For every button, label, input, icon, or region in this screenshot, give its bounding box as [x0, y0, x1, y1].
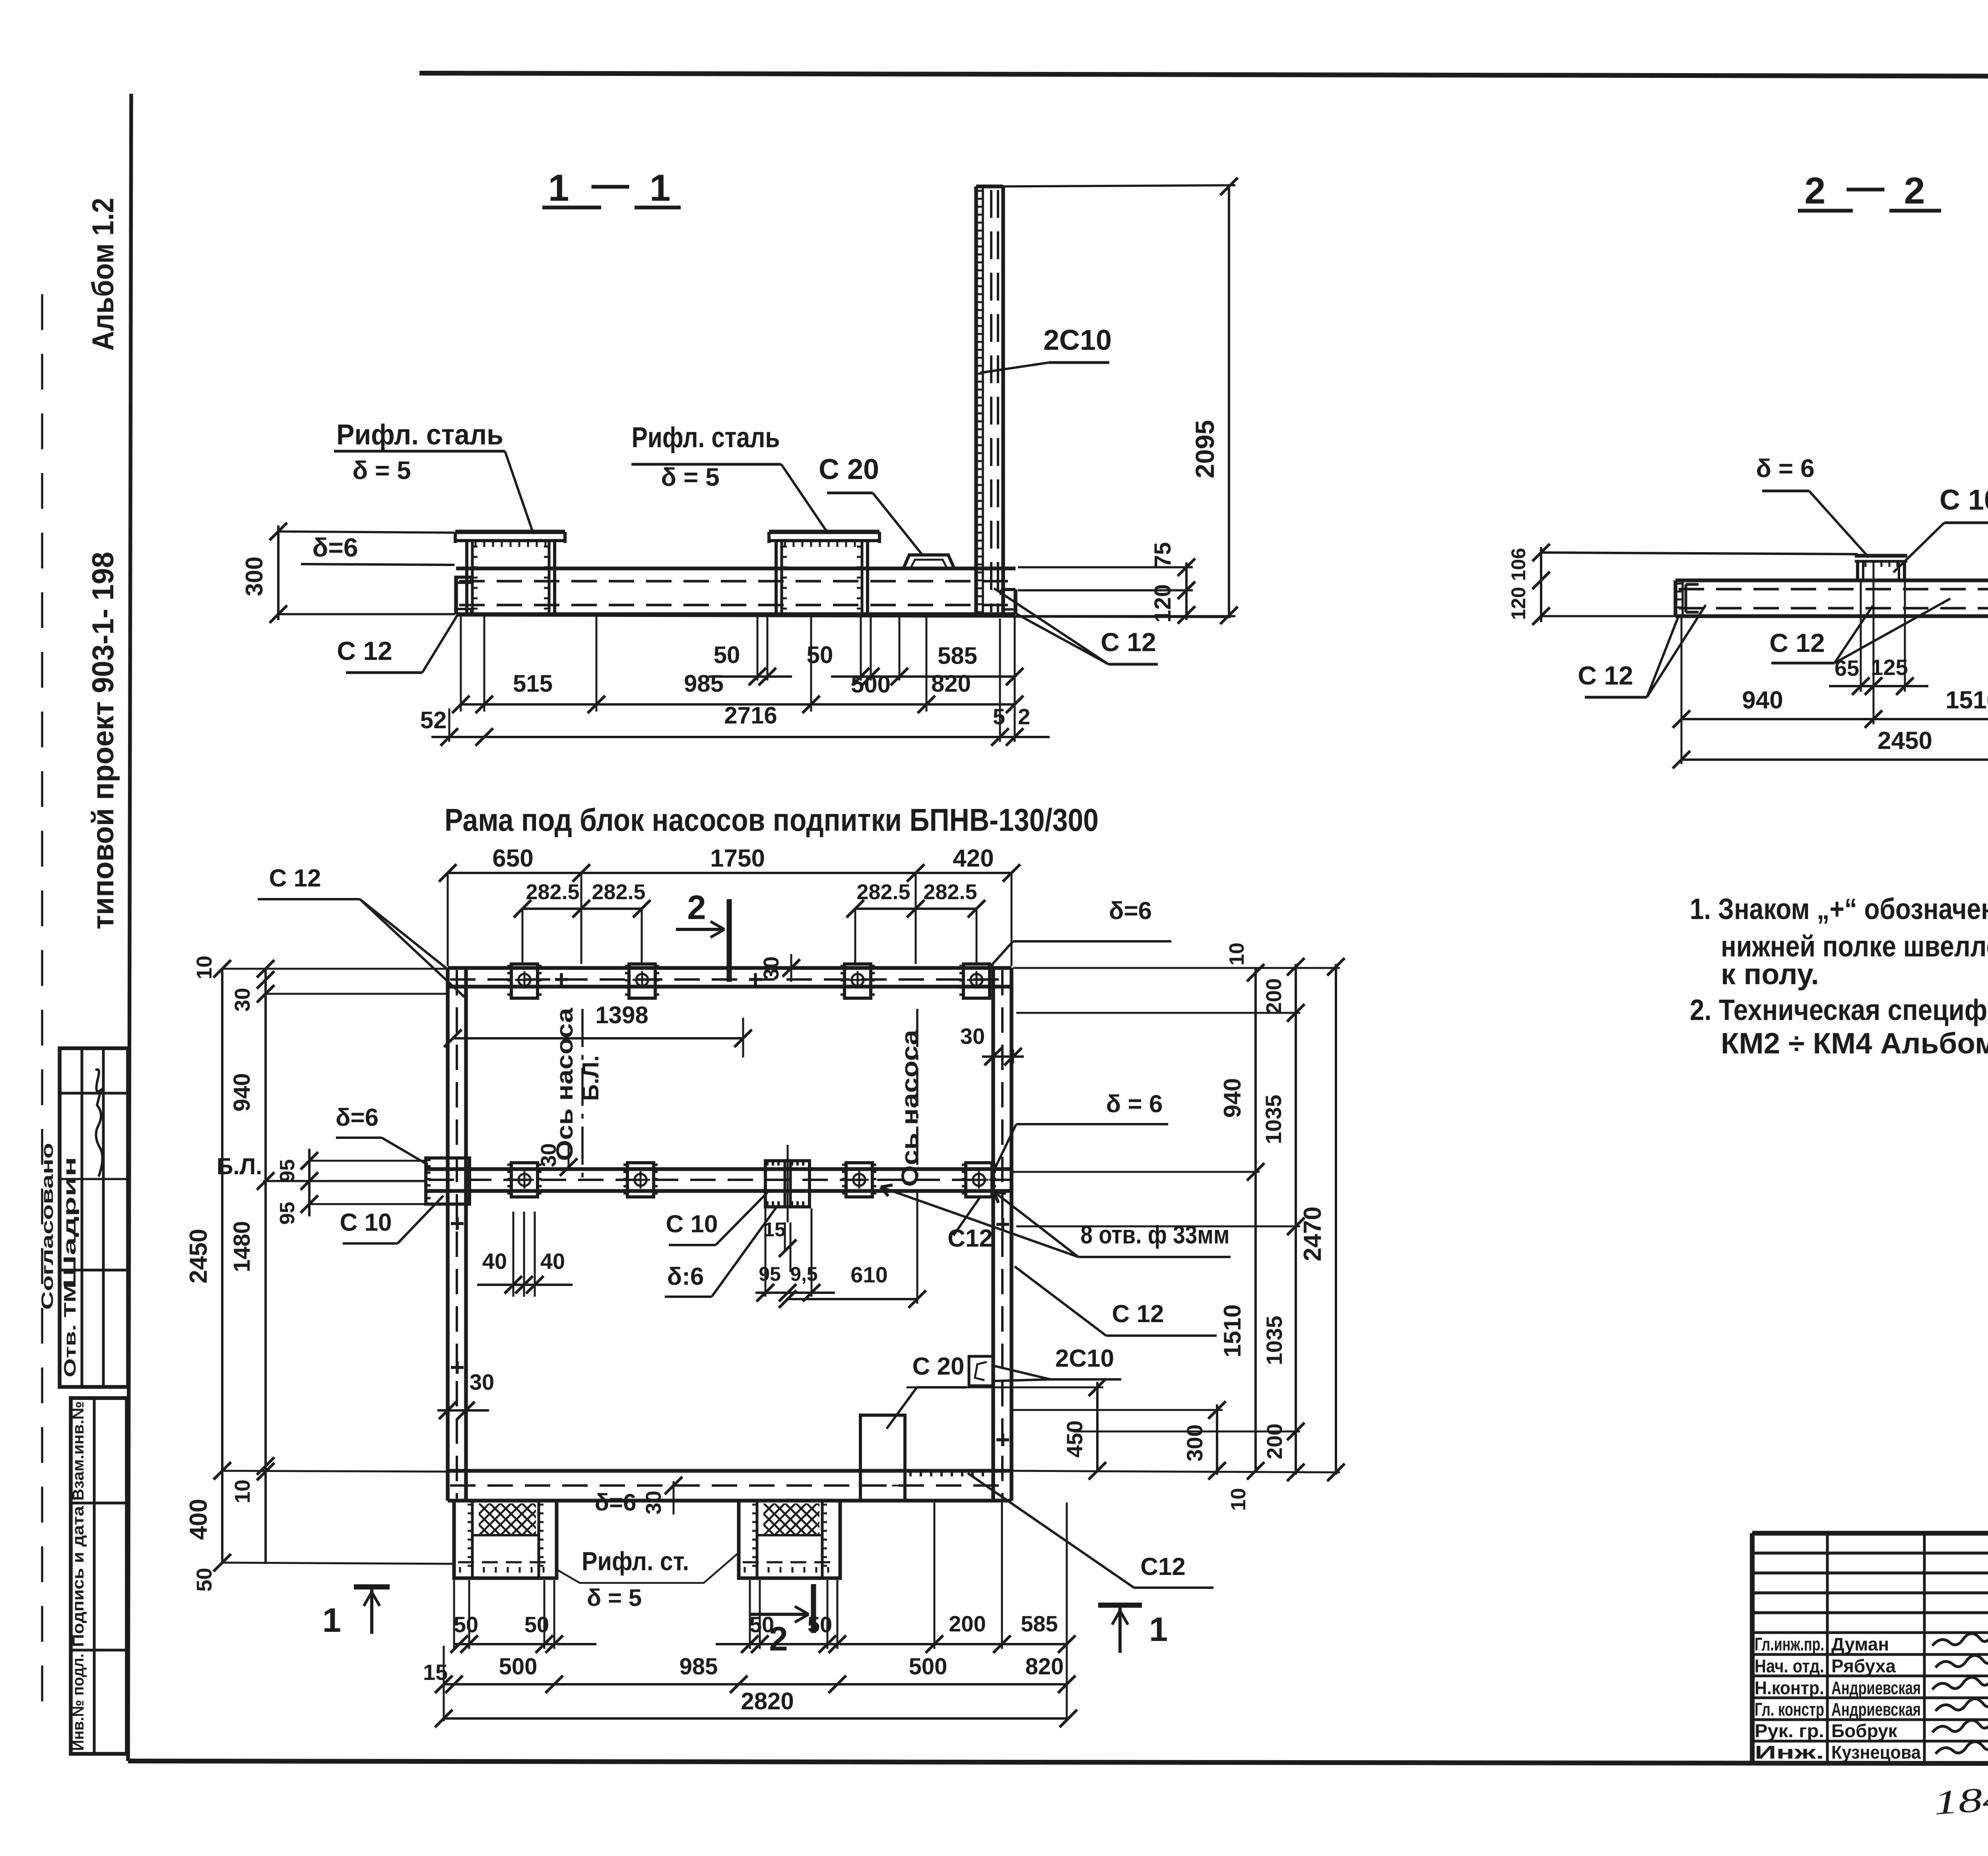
- svg-text:200: 200: [949, 1611, 986, 1636]
- handwritten 18454-40: [1932, 1771, 1988, 1822]
- svg-text:1: 1: [548, 167, 569, 209]
- section 1-1 floor line: [456, 615, 1231, 617]
- label C12 right 1-1: [994, 588, 1158, 664]
- plan right channel: [993, 968, 1011, 1501]
- svg-text:—: —: [592, 163, 629, 205]
- extension lines bottom dims 1-1: [449, 615, 1015, 742]
- plan right dim col C: [1299, 958, 1345, 1481]
- plan pump axis right: [916, 1009, 918, 1184]
- section 1-1 floor line left segment: [301, 564, 454, 565]
- notes line 2: [1721, 930, 1988, 963]
- svg-text:1035: 1035: [1261, 1095, 1286, 1144]
- plan dim chain 15-500-985-500-820: [423, 1503, 1076, 1721]
- plan label Rifl st bottom: [558, 1546, 739, 1611]
- dim 65-125 2-2: [1829, 561, 1928, 724]
- plan label d6 midright: [993, 1090, 1168, 1173]
- svg-text:1510: 1510: [1219, 1304, 1246, 1357]
- notes line 5: [1721, 1027, 1988, 1060]
- svg-text:С 20: С 20: [912, 1353, 965, 1380]
- svg-text:50: 50: [454, 1612, 478, 1637]
- svg-text:С 10: С 10: [1939, 484, 1988, 516]
- svg-text:2: 2: [1904, 170, 1925, 212]
- svg-text:типовой проект 903-1- 198: типовой проект 903-1- 198: [86, 552, 120, 929]
- plan dim 30 midleft: [537, 1143, 577, 1176]
- left stamp text Soglasovano: [38, 1143, 56, 1310]
- label C12 2-2 leftmost: [1578, 605, 1706, 697]
- svg-text:Рифл. ст.: Рифл. ст.: [582, 1546, 689, 1576]
- label Rifl stal mid: [631, 422, 827, 532]
- left stamp text Vzam.inv.No: [70, 1401, 87, 1501]
- svg-text:Кузнецова: Кузнецова: [1831, 1742, 1921, 1763]
- dim 75 section 1-1: [1018, 542, 1195, 599]
- svg-text:940: 940: [229, 1073, 255, 1112]
- plan label C10 mid: [666, 1193, 767, 1245]
- left stamp signature: [95, 1069, 103, 1177]
- svg-text:КМ2 ÷ КМ4 Альбом 5,4 .: КМ2 ÷ КМ4 Альбом 5,4 .: [1721, 1027, 1988, 1060]
- plan left channel: [448, 968, 466, 1501]
- plan mounting plates on top channel: [507, 964, 994, 998]
- svg-text:2: 2: [1805, 170, 1826, 212]
- svg-text:δ=6: δ=6: [336, 1104, 379, 1131]
- svg-text:95: 95: [276, 1159, 299, 1182]
- svg-text:С 12: С 12: [1578, 661, 1633, 690]
- svg-text:10: 10: [1225, 943, 1248, 966]
- label d6 section 1-1: [312, 533, 358, 562]
- page left border: [128, 94, 131, 1761]
- dim 120 2-2: [1507, 572, 1675, 625]
- left stamp text Shadrin: [60, 1157, 80, 1288]
- left stamp upper table: [60, 1048, 128, 1387]
- svg-text:500: 500: [851, 671, 891, 698]
- svg-text:Ось насоса: Ось насоса: [897, 1030, 923, 1187]
- plan axis label BL: [578, 1055, 604, 1101]
- svg-text:δ=6: δ=6: [595, 1489, 637, 1516]
- svg-text:50: 50: [714, 642, 740, 668]
- notes line 4: [1690, 993, 1988, 1026]
- section mark 2 top: [676, 889, 729, 982]
- svg-text:С12: С12: [1140, 1553, 1186, 1581]
- svg-text:15: 15: [763, 1218, 786, 1241]
- left stamp lower table: [71, 1398, 127, 1754]
- notes line 1: [1690, 892, 1988, 925]
- svg-text:75: 75: [1150, 542, 1176, 568]
- svg-text:5: 5: [993, 704, 1005, 729]
- svg-text:Рябуха: Рябуха: [1831, 1656, 1896, 1676]
- svg-text:2: 2: [1018, 704, 1030, 729]
- plan 2C10 bracket: [969, 1356, 993, 1386]
- plan mounting plates on mid channel: [507, 1163, 996, 1197]
- svg-text:515: 515: [513, 670, 553, 697]
- plan dim 15: [763, 1218, 796, 1272]
- plan label d6 topright: [991, 897, 1171, 966]
- plan dim 40-40: [477, 1212, 573, 1297]
- svg-text:Б.Л.: Б.Л.: [578, 1055, 604, 1101]
- plan dim 95-95 mid: [755, 1208, 835, 1301]
- svg-text:1035: 1035: [1262, 1316, 1287, 1365]
- svg-text:Андриевская: Андриевская: [1831, 1678, 1921, 1698]
- plan label d6 mid: [665, 1208, 776, 1297]
- svg-text:125: 125: [1871, 655, 1908, 680]
- svg-text:Инв.№ подл.: Инв.№ подл.: [70, 1654, 87, 1751]
- svg-text:8 отв. ф 33мм: 8 отв. ф 33мм: [1081, 1220, 1230, 1249]
- svg-text:Рук. гр.: Рук. гр.: [1755, 1720, 1824, 1741]
- section mark 1 left: [322, 1587, 390, 1639]
- left stamp text Inv.No podl.: [70, 1654, 87, 1751]
- label C20: [819, 454, 922, 555]
- svg-text:1: 1: [650, 167, 671, 209]
- svg-text:95: 95: [759, 1263, 781, 1285]
- svg-text:40: 40: [540, 1249, 565, 1274]
- svg-text:Рама под блок насосов подп: Рама под блок насосов подпитки БПНВ-130/…: [445, 802, 1099, 838]
- plan dim 282.5 left pair: [514, 880, 650, 964]
- paper left edge dashed: [41, 294, 43, 1701]
- plan left dim 2450-400: [185, 960, 454, 1571]
- plan dim 450: [907, 1379, 1106, 1480]
- left stamp text Otv.TM: [60, 1282, 79, 1377]
- plan dim chain 50s-200-585: [450, 1611, 1076, 1653]
- svg-text:Шадрин: Шадрин: [60, 1157, 80, 1288]
- svg-text:С 10: С 10: [340, 1209, 392, 1236]
- svg-text:1398: 1398: [595, 1002, 648, 1028]
- title block names: [1755, 1634, 1921, 1763]
- svg-text:Согласовано: Согласовано: [38, 1143, 56, 1310]
- svg-text:Н.контр.: Н.контр.: [1755, 1678, 1824, 1698]
- svg-text:30: 30: [470, 1369, 494, 1394]
- svg-text:50: 50: [749, 1612, 774, 1637]
- plan dim 610: [779, 1193, 926, 1308]
- svg-text:Рифл. сталь: Рифл. сталь: [336, 419, 503, 451]
- page bottom border: [128, 1761, 1988, 1764]
- label d6 2-2 left: [1756, 454, 1869, 557]
- beam C12 section 1-1: [456, 568, 1015, 614]
- svg-text:1510: 1510: [1945, 687, 1988, 714]
- left stamp text Podpis i data: [70, 1506, 87, 1647]
- plan dim 1398: [444, 1002, 752, 1057]
- svg-text:610: 610: [850, 1262, 887, 1287]
- svg-text:106: 106: [1507, 548, 1530, 581]
- label C12 left 1-1: [337, 615, 457, 673]
- C12 left cap 2-2: [1675, 580, 1699, 616]
- title block signatures: [1932, 1633, 1988, 1754]
- title block grid: [1752, 1533, 1988, 1763]
- pedestal 2 section 1-1: [769, 532, 879, 613]
- svg-text:10: 10: [231, 1480, 254, 1503]
- svg-text:Взам.инв.№: Взам.инв.№: [70, 1401, 87, 1501]
- plan left pad BL: [426, 1158, 470, 1204]
- page top border: [419, 73, 1988, 77]
- svg-text:30: 30: [960, 1024, 985, 1049]
- plan dim 30 bottommid: [642, 1477, 682, 1515]
- left margin text Album 1.2: [86, 198, 120, 351]
- svg-text:10: 10: [1227, 1488, 1250, 1511]
- svg-text:65: 65: [1835, 656, 1859, 681]
- svg-text:30: 30: [642, 1491, 666, 1515]
- svg-text:282.5: 282.5: [526, 880, 579, 904]
- plan dim 650-1750-420: [439, 845, 1020, 966]
- svg-text:2450: 2450: [185, 1229, 212, 1284]
- svg-text:δ = 5: δ = 5: [587, 1584, 642, 1611]
- svg-text:2716: 2716: [724, 702, 777, 729]
- C12 right end cap 1-1: [1001, 590, 1015, 614]
- plan right ext lines: [1013, 968, 1340, 1472]
- svg-text:δ = 5: δ = 5: [661, 463, 719, 491]
- plan right dim col B: [1261, 958, 1305, 1481]
- plan dim chain 2820: [435, 1688, 1077, 1727]
- svg-text:95: 95: [276, 1202, 299, 1225]
- plan plus hole marks: [451, 973, 1009, 1446]
- label C10 2-2: [1893, 484, 1988, 572]
- dim chain 50-50-585 1-1: [709, 642, 1023, 685]
- svg-text:к полу.: к полу.: [1721, 958, 1819, 991]
- svg-text:δ = 6: δ = 6: [1756, 454, 1814, 483]
- svg-text:1480: 1480: [229, 1221, 255, 1272]
- svg-text:940: 940: [1742, 687, 1783, 714]
- plan label d6 left: [336, 1104, 428, 1165]
- plan label 8otv: [881, 1185, 1231, 1257]
- notes line 3: [1721, 958, 1819, 991]
- svg-text:Подпись и дата: Подпись и дата: [70, 1506, 87, 1647]
- pedestal 1 section 1-1 (rifl steel box): [455, 532, 565, 613]
- section 2-2 title: [1798, 166, 1941, 212]
- svg-text:Отв. ТМ: Отв. ТМ: [60, 1282, 79, 1377]
- svg-text:2: 2: [687, 889, 706, 927]
- plan axis label left: [552, 1008, 578, 1161]
- svg-text:1: 1: [322, 1602, 341, 1639]
- plan label C20: [887, 1353, 966, 1429]
- svg-text:282.5: 282.5: [923, 880, 977, 904]
- svg-text:Ось насоса: Ось насоса: [552, 1008, 578, 1161]
- svg-text:Гл. констр: Гл. констр: [1755, 1699, 1824, 1720]
- channel C10 on beam 2-2: [1855, 556, 1907, 580]
- svg-text:50: 50: [808, 1612, 832, 1637]
- svg-text:30: 30: [759, 956, 783, 980]
- svg-text:δ = 6: δ = 6: [1106, 1090, 1163, 1118]
- svg-text:50: 50: [524, 1612, 549, 1637]
- plan bottom channel: [448, 1471, 1011, 1501]
- svg-text:30: 30: [231, 988, 254, 1012]
- svg-text:Бобрук: Бобрук: [1831, 1720, 1898, 1741]
- svg-text:820: 820: [931, 670, 971, 697]
- C12 left end cap 1-1: [456, 576, 472, 614]
- svg-text:Гл.инж.пр.: Гл.инж.пр.: [1755, 1634, 1824, 1654]
- dim 300 section 1-1: [241, 523, 455, 623]
- plan bottom ext lines chain1: [454, 1503, 1002, 1649]
- line floor level 2-2: [1541, 553, 1858, 554]
- plan right dim col A: [1219, 943, 1264, 1511]
- svg-text:2820: 2820: [741, 1688, 794, 1714]
- svg-text:120: 120: [1150, 584, 1176, 623]
- plan dim 282.5 right pair: [846, 880, 985, 964]
- plan left dim 10-30-940-1480-10: [192, 956, 448, 1592]
- plan label 2C10: [994, 1345, 1121, 1381]
- svg-text:δ=6: δ=6: [1109, 897, 1152, 925]
- plan label d6 bottom: [595, 1489, 637, 1516]
- plan label C12 topleft: [258, 865, 464, 997]
- plan dim 30 topmid: [759, 954, 800, 982]
- plan dim 300 right: [1013, 1401, 1226, 1480]
- svg-text:985: 985: [679, 1654, 718, 1680]
- svg-text:2С10: 2С10: [1055, 1345, 1114, 1372]
- left margin text project 903-1-198: [86, 552, 120, 929]
- plan dim 30 topright: [960, 989, 1024, 1065]
- svg-text:2095: 2095: [1190, 420, 1219, 479]
- svg-text:С 20: С 20: [819, 454, 879, 485]
- plan pump axis left: [581, 1009, 584, 1184]
- svg-text:С 12: С 12: [337, 636, 392, 665]
- dim chain 515-985-500-820 1-1: [452, 670, 1023, 713]
- svg-text:С 12: С 12: [1769, 628, 1825, 657]
- dim 940-1510 2-2: [1673, 617, 1988, 764]
- dim 106 2-2: [1507, 544, 1550, 589]
- section mark 1 right: [1098, 1605, 1168, 1653]
- plan label C12 right: [1015, 1266, 1217, 1336]
- plan pad 2 rifl steel: [732, 1501, 881, 1578]
- svg-text:1. Знаком „+“ обозначены отве: 1. Знаком „+“ обозначены отверстия ф 17 …: [1690, 892, 1988, 925]
- label Rifl stal left: [334, 419, 533, 532]
- svg-text:940: 940: [1219, 1078, 1246, 1118]
- beam C12 section 2-2: [1675, 580, 1988, 616]
- svg-text:С12: С12: [947, 1225, 993, 1252]
- plan mid channel: [426, 1169, 1011, 1191]
- svg-text:С 12: С 12: [1101, 627, 1156, 657]
- svg-text:40: 40: [482, 1249, 507, 1274]
- C20 bracket section 1-1: [903, 555, 954, 568]
- svg-text:Думан: Думан: [1831, 1634, 1889, 1654]
- column 2C10 section 1-1: [976, 186, 1003, 615]
- svg-text:Инж.: Инж.: [1755, 1742, 1824, 1763]
- svg-text:985: 985: [684, 670, 724, 697]
- svg-text:650: 650: [492, 845, 533, 872]
- svg-text:282.5: 282.5: [856, 880, 910, 904]
- svg-text:400: 400: [185, 1499, 212, 1540]
- svg-text:30: 30: [537, 1143, 561, 1167]
- svg-text:52: 52: [420, 707, 447, 733]
- dim 2450-400 2-2: [1673, 617, 1988, 768]
- plan dim 95-95: [276, 1149, 426, 1225]
- svg-text:Альбом 1.2: Альбом 1.2: [86, 198, 120, 351]
- svg-text:200: 200: [1263, 1424, 1287, 1459]
- svg-text:Андриевская: Андриевская: [1831, 1699, 1921, 1720]
- plan pad 1 rifl steel: [447, 1501, 597, 1578]
- svg-text:10: 10: [192, 956, 216, 979]
- svg-text:С 12: С 12: [1112, 1300, 1164, 1328]
- svg-text:Б.Л.: Б.Л.: [217, 1154, 262, 1179]
- dim 2095 section 1-1: [1003, 178, 1238, 624]
- svg-text:1750: 1750: [710, 845, 765, 872]
- section mark 2 bottom: [749, 1584, 813, 1658]
- svg-text:820: 820: [1025, 1654, 1064, 1680]
- svg-text:δ=6: δ=6: [312, 533, 358, 562]
- svg-text:Рифл. сталь: Рифл. сталь: [632, 422, 780, 454]
- svg-text:50: 50: [807, 642, 833, 668]
- svg-text:2470: 2470: [1299, 1206, 1326, 1261]
- svg-text:9,5: 9,5: [790, 1263, 818, 1285]
- plan axis label right: [897, 1030, 923, 1187]
- svg-text:—: —: [1847, 166, 1885, 208]
- plan central pad C10: [765, 1145, 810, 1222]
- dim 120 section 1-1: [1150, 582, 1195, 624]
- svg-text:500: 500: [499, 1654, 538, 1680]
- svg-text:1: 1: [1149, 1611, 1168, 1648]
- svg-text:С 10: С 10: [666, 1210, 718, 1238]
- label C12 2-2 mid: [1769, 599, 1950, 663]
- plan label C10 left: [340, 1196, 443, 1243]
- plan top channel: [448, 968, 1011, 987]
- section 1-1 title: [542, 163, 681, 209]
- svg-text:300: 300: [241, 557, 268, 596]
- svg-text:2С10: 2С10: [1043, 324, 1112, 356]
- svg-text:282.5: 282.5: [592, 880, 645, 904]
- svg-text:585: 585: [938, 642, 977, 669]
- svg-text:450: 450: [1062, 1420, 1087, 1457]
- plan C20 box: [860, 1415, 905, 1501]
- plan title: [445, 802, 1099, 838]
- svg-text:500: 500: [909, 1654, 947, 1680]
- svg-text:Нач. отд.: Нач. отд.: [1755, 1656, 1824, 1676]
- plan label C12 mid: [947, 1197, 993, 1252]
- svg-text:120: 120: [1507, 587, 1530, 620]
- dim chain 52-2716-52 1-1: [420, 702, 1050, 746]
- svg-text:200: 200: [1262, 978, 1286, 1014]
- svg-text:585: 585: [1021, 1611, 1058, 1636]
- svg-text:С 12: С 12: [269, 865, 321, 892]
- plan dim 30 bottomleft: [437, 1369, 494, 1419]
- plan label C12 bottomright: [968, 1473, 1213, 1588]
- plan label BL left: [217, 1154, 426, 1181]
- svg-text:δ:6: δ:6: [667, 1263, 704, 1290]
- svg-text:420: 420: [953, 845, 994, 872]
- svg-text:2450: 2450: [1877, 727, 1932, 754]
- svg-text:2. Техническая спецификация: 2. Техническая спецификация стали дана н…: [1690, 993, 1988, 1026]
- svg-text:50: 50: [192, 1568, 216, 1592]
- svg-text:300: 300: [1182, 1424, 1207, 1461]
- svg-text:δ = 5: δ = 5: [352, 456, 411, 485]
- label 2C10 section 1-1: [980, 324, 1112, 373]
